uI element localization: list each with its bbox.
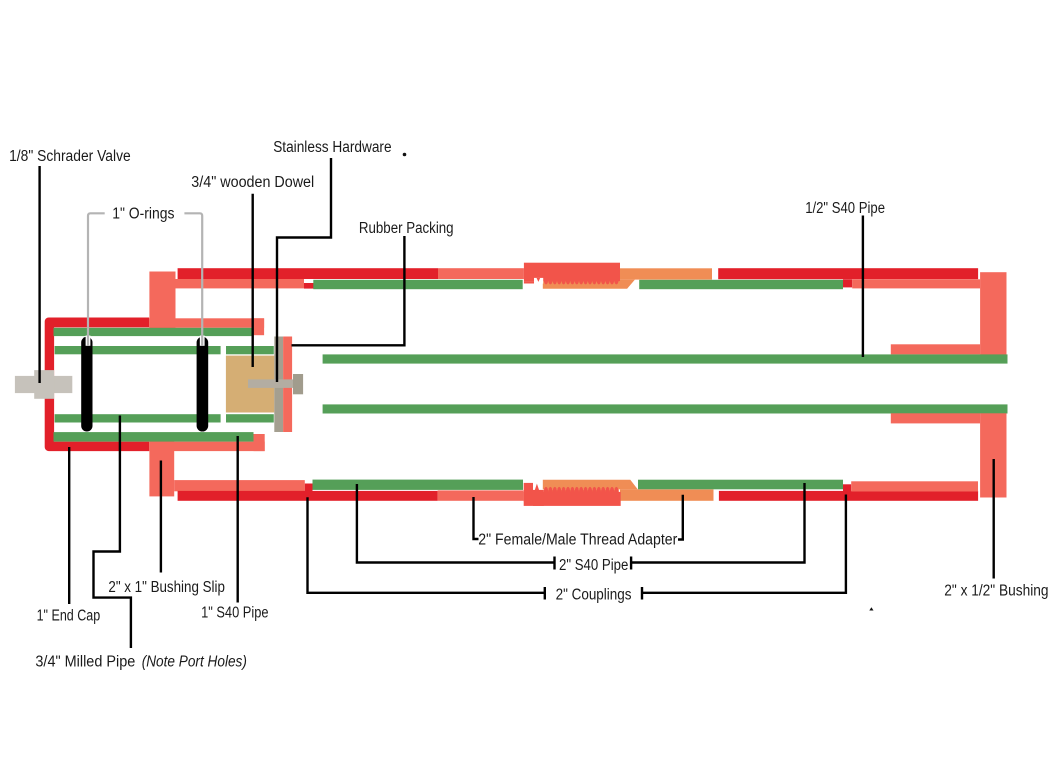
svg-text:(Note Port Holes): (Note Port Holes)	[142, 654, 247, 671]
svg-text:1/8" Schrader Valve: 1/8" Schrader Valve	[9, 148, 131, 165]
svg-text:Rubber Packing: Rubber Packing	[359, 220, 454, 237]
svg-text:3/4" wooden Dowel: 3/4" wooden Dowel	[191, 174, 314, 191]
svg-text:Stainless Hardware: Stainless Hardware	[273, 139, 391, 156]
svg-text:2" x 1" Bushing Slip: 2" x 1" Bushing Slip	[108, 579, 224, 596]
svg-text:2" Female/Male Thread Adapter: 2" Female/Male Thread Adapter	[478, 532, 677, 549]
svg-text:3/4" Milled Pipe: 3/4" Milled Pipe	[35, 654, 135, 671]
svg-text:1" O-rings: 1" O-rings	[112, 206, 175, 223]
svg-text:2" S40 Pipe: 2" S40 Pipe	[559, 557, 628, 574]
svg-text:1/2" S40 Pipe: 1/2" S40 Pipe	[805, 200, 885, 217]
svg-text:1" S40 Pipe: 1" S40 Pipe	[201, 605, 268, 622]
svg-text:2" Couplings: 2" Couplings	[556, 587, 632, 604]
svg-text:1" End Cap: 1" End Cap	[37, 608, 101, 625]
svg-text:2" x 1/2" Bushing: 2" x 1/2" Bushing	[944, 583, 1048, 600]
